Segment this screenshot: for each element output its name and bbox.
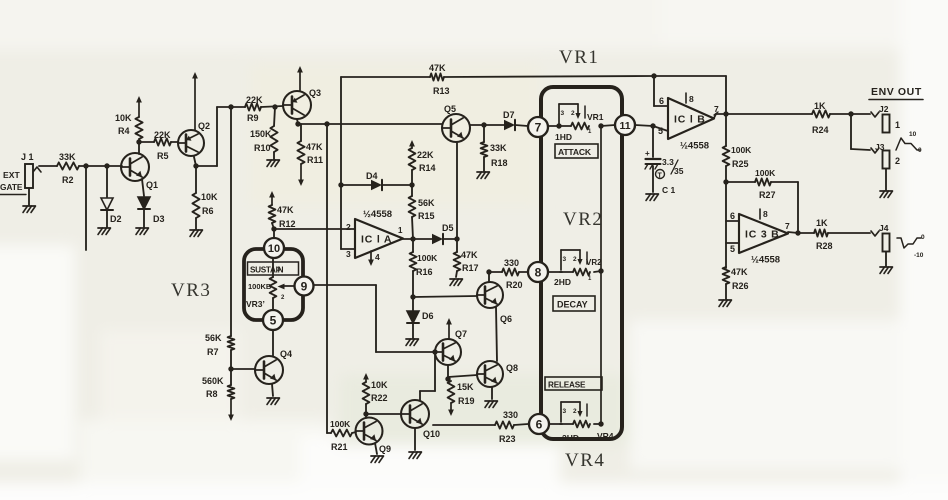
ground under R17 bbox=[450, 279, 463, 286]
diode D5 bbox=[432, 223, 454, 244]
svg-text:3: 3 bbox=[563, 256, 567, 263]
wire IC1A pin 2 bbox=[274, 228, 355, 230]
wire J4 to ground bbox=[885, 252, 887, 266]
svg-text:EXT: EXT bbox=[3, 170, 20, 180]
wire Q1 emitter to D3 bbox=[142, 179, 144, 196]
node junction Q2 collector bbox=[193, 163, 198, 168]
svg-text:10: 10 bbox=[268, 243, 280, 255]
svg-text:Q1: Q1 bbox=[146, 180, 158, 190]
wire to Q4 base bbox=[231, 368, 255, 370]
svg-text:1: 1 bbox=[895, 120, 900, 130]
wire to R9 bbox=[217, 106, 245, 108]
svg-text:R20: R20 bbox=[506, 280, 523, 290]
node junction D2 branch bbox=[104, 163, 109, 168]
node 7 bbox=[528, 117, 548, 137]
resistor R13 47K bbox=[429, 63, 450, 96]
ground under R6 bbox=[190, 230, 203, 237]
jack J1 (EXT GATE input) bbox=[21, 152, 41, 205]
transistor Q7 bbox=[435, 329, 467, 365]
potentiometer VR3 100KB bbox=[248, 258, 285, 310]
wire Q1 collector up bbox=[138, 142, 140, 154]
ATTACK label box bbox=[555, 144, 598, 158]
wire D2 branch down bbox=[106, 166, 108, 197]
svg-text:3: 3 bbox=[346, 249, 351, 259]
op-amp IC1B bbox=[668, 98, 714, 152]
resistor R17 47K bbox=[454, 239, 479, 277]
node junction D4 left bbox=[338, 182, 343, 187]
svg-text:7: 7 bbox=[714, 104, 719, 114]
wire D4 right bbox=[382, 184, 412, 186]
svg-text:R21: R21 bbox=[331, 442, 348, 452]
svg-text:8: 8 bbox=[763, 209, 768, 219]
potentiometer VR4 release bbox=[560, 402, 614, 441]
resistor R9 22K bbox=[245, 95, 263, 123]
IC1A pin4 arrow bbox=[370, 251, 372, 262]
wire node7 to VR1 bbox=[548, 125, 559, 127]
svg-text:5: 5 bbox=[270, 313, 277, 327]
svg-text:2: 2 bbox=[573, 408, 577, 415]
DECAY label box bbox=[553, 296, 595, 311]
svg-text:R2: R2 bbox=[62, 175, 74, 185]
svg-text:22K: 22K bbox=[154, 130, 171, 140]
wire pins bus IC3B bbox=[725, 182, 727, 268]
wire R5 to Q2 base bbox=[171, 141, 178, 143]
node junction Q6 collector bbox=[486, 269, 491, 274]
svg-text:D2: D2 bbox=[110, 214, 122, 224]
wire Q3 to Q5 base bbox=[298, 123, 442, 125]
IC1B pin 7 label bbox=[714, 104, 719, 115]
feedback riser x341 bbox=[340, 77, 342, 249]
transistor Q3 bbox=[283, 88, 321, 119]
node junction IC3B output bbox=[795, 230, 800, 235]
svg-text:½4558: ½4558 bbox=[363, 209, 392, 220]
wire Q10 emitter down bbox=[414, 428, 416, 450]
transistor Q2 bbox=[178, 121, 210, 156]
svg-text:5: 5 bbox=[658, 126, 663, 136]
power arrow above Q2 bbox=[194, 76, 196, 130]
svg-text:VR2: VR2 bbox=[586, 258, 602, 267]
wire R20 left bbox=[489, 271, 502, 273]
svg-text:R22: R22 bbox=[371, 393, 388, 403]
resistor R28 1K bbox=[814, 218, 833, 251]
wire node10 stub bbox=[273, 229, 275, 239]
wire Q5 to D7 node bbox=[470, 124, 484, 126]
ground under D6 bbox=[406, 339, 419, 346]
svg-text:R8: R8 bbox=[206, 389, 218, 399]
node junction R10 top bbox=[272, 104, 277, 109]
node junction R12 / pin2 bbox=[271, 226, 276, 231]
jack J4 bbox=[871, 223, 890, 252]
resistor R23 330 bbox=[495, 410, 518, 444]
resistor R19 15K bbox=[448, 381, 475, 406]
wire IC3B pin6 bbox=[726, 220, 739, 222]
transistor Q5 bbox=[442, 104, 470, 142]
node junction VR4 out bbox=[598, 421, 603, 426]
svg-text:R27: R27 bbox=[759, 190, 776, 200]
resistor R7 56K bbox=[205, 333, 234, 357]
power arrow above Q3 bbox=[299, 70, 301, 91]
wire node9 right bbox=[314, 284, 377, 286]
ground under R18 bbox=[477, 172, 490, 179]
svg-text:330: 330 bbox=[503, 410, 518, 420]
node junction feedback top bbox=[651, 73, 656, 78]
wire to D7 bbox=[484, 124, 504, 126]
svg-text:10K: 10K bbox=[371, 380, 388, 390]
resistor R10 150K bbox=[250, 107, 278, 159]
svg-text:0: 0 bbox=[918, 147, 922, 154]
svg-text:0: 0 bbox=[921, 234, 925, 241]
svg-text:10: 10 bbox=[909, 131, 917, 138]
wire J1 to R2 bbox=[39, 165, 57, 167]
svg-text:33K: 33K bbox=[59, 152, 76, 162]
resistor R22 10K bbox=[363, 380, 388, 414]
resistor R14 22K bbox=[409, 148, 436, 185]
node 11 bbox=[615, 115, 635, 135]
node junction Q1 collector bbox=[136, 139, 141, 144]
svg-text:22K: 22K bbox=[417, 150, 434, 160]
svg-text:R24: R24 bbox=[812, 125, 829, 135]
wire gate drop to R21 bbox=[326, 124, 328, 433]
resistor R15 56K bbox=[409, 185, 435, 239]
node 10 bbox=[264, 238, 284, 258]
svg-text:3.3: 3.3 bbox=[662, 157, 674, 167]
resistor R27 100K bbox=[755, 168, 776, 200]
svg-text:R23: R23 bbox=[499, 434, 516, 444]
wire D5 to R17 node bbox=[443, 238, 457, 240]
ground under C1 bbox=[646, 194, 659, 201]
resistor R24 1K bbox=[812, 101, 830, 135]
node junction VR2 out bbox=[598, 268, 603, 273]
svg-text:R10: R10 bbox=[254, 143, 271, 153]
node junction D4/R14/R15 bbox=[409, 182, 414, 187]
VR3 wiper arrow from node 9 bbox=[278, 284, 295, 290]
svg-text:47K: 47K bbox=[306, 142, 323, 152]
svg-text:1: 1 bbox=[398, 226, 403, 235]
power arrow above Q7 bbox=[448, 322, 450, 339]
svg-text:8: 8 bbox=[535, 265, 542, 279]
resistor R2 33K bbox=[57, 152, 79, 185]
svg-text:R9: R9 bbox=[247, 113, 259, 123]
transistor Q1 bbox=[121, 153, 158, 190]
svg-text:VR2: VR2 bbox=[563, 209, 603, 230]
wire R22 node to Q10 base bbox=[366, 413, 401, 415]
svg-text:56K: 56K bbox=[205, 333, 222, 343]
resistor R6 10K bbox=[192, 166, 218, 229]
op-amp IC3B bbox=[739, 214, 788, 266]
resistor R18 33K bbox=[481, 125, 508, 171]
transistor Q10 bbox=[401, 400, 440, 439]
svg-text:2: 2 bbox=[573, 256, 577, 263]
wire feedback top to output bbox=[654, 75, 726, 77]
ground under Q9 bbox=[371, 456, 384, 463]
power arrow above R4 bbox=[138, 100, 140, 117]
wire D3 to ground bbox=[143, 210, 145, 227]
svg-text:2: 2 bbox=[895, 156, 900, 166]
svg-text:D5: D5 bbox=[442, 223, 454, 233]
node junction Q10 collector bbox=[432, 349, 437, 354]
wire to Q6 base bbox=[413, 296, 477, 297]
svg-text:J 1: J 1 bbox=[21, 152, 34, 162]
diode D4 bbox=[366, 171, 382, 190]
svg-text:T: T bbox=[658, 173, 663, 180]
EXT GATE label bbox=[0, 170, 26, 195]
wire Q3 collector down bbox=[297, 119, 298, 124]
wire R23 to node 6 bbox=[514, 424, 528, 425]
wire to Q7 base bbox=[376, 351, 435, 353]
ground under R26 bbox=[719, 300, 732, 307]
node 6 bbox=[529, 414, 549, 434]
svg-text:D6: D6 bbox=[422, 311, 434, 321]
node 5 bbox=[263, 310, 283, 330]
svg-text:VR3: VR3 bbox=[171, 280, 211, 301]
power arrow above R14 bbox=[411, 144, 413, 148]
svg-text:R11: R11 bbox=[307, 155, 323, 165]
svg-text:330: 330 bbox=[504, 258, 519, 268]
svg-text:2HD: 2HD bbox=[554, 277, 571, 287]
node junction VR1 terminal 3 bbox=[556, 123, 561, 128]
wire D4 left bbox=[341, 184, 371, 186]
wire Q9 collector up bbox=[365, 414, 367, 418]
ground under Q10 bbox=[409, 452, 422, 459]
svg-text:Q9: Q9 bbox=[379, 444, 391, 454]
IC3B pin 8 tick bbox=[760, 209, 768, 219]
svg-text:J2: J2 bbox=[879, 104, 889, 114]
svg-text:DECAY: DECAY bbox=[557, 300, 588, 310]
resistor R5 22K bbox=[154, 130, 171, 161]
wire node11 right bbox=[635, 125, 653, 126]
svg-text:ENV OUT: ENV OUT bbox=[871, 86, 922, 98]
svg-text:R28: R28 bbox=[816, 241, 833, 251]
potentiometer VR2 decay bbox=[560, 250, 602, 282]
svg-text:IC 3 B: IC 3 B bbox=[745, 229, 780, 241]
svg-text:Q7: Q7 bbox=[455, 329, 467, 339]
wire R12 to pin2 node bbox=[272, 223, 274, 229]
resistor R21 100K bbox=[330, 419, 352, 452]
node junction R25/R27 bbox=[723, 179, 728, 184]
svg-text:9: 9 bbox=[301, 279, 308, 293]
svg-text:150K: 150K bbox=[250, 129, 272, 139]
svg-text:3: 3 bbox=[563, 408, 567, 415]
transistor Q6 bbox=[477, 282, 512, 324]
SUSTAIN label box bbox=[248, 262, 299, 275]
transistor Q9 bbox=[356, 418, 392, 455]
svg-text:R7: R7 bbox=[207, 347, 219, 357]
svg-text:IC l B: IC l B bbox=[674, 114, 706, 126]
transistor Q4 bbox=[255, 349, 292, 384]
power arrow above R22 bbox=[365, 377, 367, 382]
wire R27 left bbox=[726, 181, 755, 183]
wire IC1B output bbox=[714, 114, 716, 118]
wire R13 to IC1B bbox=[444, 76, 654, 77]
svg-text:Q4: Q4 bbox=[280, 349, 292, 359]
wire R9 to Q3 base bbox=[261, 106, 283, 107]
ground under Q4 bbox=[267, 398, 280, 405]
wire Q2 collector down bbox=[194, 157, 196, 166]
svg-text:R16: R16 bbox=[416, 267, 433, 277]
wire J3 drop bbox=[850, 114, 852, 149]
svg-text:-10: -10 bbox=[914, 252, 924, 259]
svg-text:RELEASE: RELEASE bbox=[548, 381, 586, 390]
svg-text:R4: R4 bbox=[118, 126, 130, 136]
svg-text:10K: 10K bbox=[115, 113, 132, 123]
svg-text:ATTACK: ATTACK bbox=[558, 147, 592, 157]
svg-text:D3: D3 bbox=[153, 214, 165, 224]
feedback wire R13 top bbox=[341, 76, 430, 78]
svg-text:47K: 47K bbox=[461, 250, 478, 260]
wire node6 to VR4 bbox=[549, 423, 562, 425]
svg-text:7: 7 bbox=[535, 120, 542, 134]
svg-text:Q8: Q8 bbox=[506, 363, 518, 373]
node junction pin5/C1 bbox=[650, 123, 655, 128]
resistor R4 10K bbox=[115, 113, 143, 139]
svg-text:½4558: ½4558 bbox=[751, 255, 780, 266]
wire node9 drop bbox=[375, 285, 377, 352]
wire Q7 emitter down bbox=[447, 365, 449, 379]
wire Q2 junction right bbox=[196, 165, 217, 167]
svg-text:1K: 1K bbox=[814, 101, 826, 111]
svg-text:R6: R6 bbox=[202, 206, 214, 216]
svg-text:R18: R18 bbox=[491, 158, 508, 168]
wire J3 to ground bbox=[885, 169, 887, 190]
svg-text:2HD: 2HD bbox=[562, 433, 579, 443]
node junction D5/R17 bbox=[454, 236, 459, 241]
node junction Q4 base bbox=[228, 366, 233, 371]
wire IC1A pin3 bbox=[341, 248, 355, 250]
svg-text:15K: 15K bbox=[457, 382, 474, 392]
node junction VR1 wiper out bbox=[598, 123, 603, 128]
diode D6 bbox=[407, 297, 434, 338]
wire VR2 to bus bbox=[594, 271, 601, 272]
svg-text:1K: 1K bbox=[816, 218, 828, 228]
resistor R8 560K bbox=[202, 376, 234, 399]
IC1B pin 8 tick bbox=[686, 93, 694, 104]
jack J3 bbox=[871, 142, 900, 169]
wire R23 left bbox=[433, 424, 495, 426]
resistor R12 47K bbox=[269, 205, 296, 229]
svg-text:R25: R25 bbox=[732, 159, 749, 169]
RELEASE label box bbox=[545, 377, 602, 390]
negative rail arrow under R19 bbox=[450, 403, 452, 412]
ground under D2 bbox=[98, 228, 111, 235]
wire R27 feedback to output bbox=[771, 181, 798, 183]
wire IC3B output bbox=[788, 232, 798, 233]
wire Q4 emitter down bbox=[272, 384, 273, 396]
svg-text:VR1: VR1 bbox=[559, 47, 599, 68]
diode D2 bbox=[101, 198, 122, 224]
resistor R26 47K bbox=[723, 267, 749, 299]
envelope waveform positive bbox=[896, 131, 922, 154]
inner bus wire bbox=[600, 126, 602, 424]
svg-text:1HD: 1HD bbox=[555, 132, 572, 142]
diode D3 bbox=[138, 197, 165, 224]
wire Q9 emitter down bbox=[375, 443, 377, 454]
svg-text:IC l A: IC l A bbox=[361, 234, 392, 246]
jack J2 bbox=[871, 104, 900, 133]
node junction R22 bottom bbox=[363, 411, 368, 416]
node junction Q3 collector bbox=[295, 121, 300, 126]
svg-text:47K: 47K bbox=[731, 267, 748, 277]
svg-text:35: 35 bbox=[674, 166, 684, 176]
wire gate line down bbox=[85, 166, 87, 250]
svg-text:22K: 22K bbox=[246, 95, 263, 105]
svg-text:R12: R12 bbox=[279, 219, 296, 229]
ground under D3 bbox=[136, 228, 149, 235]
wire R20 to node 8 bbox=[519, 271, 528, 273]
node junction R7 bus top bbox=[228, 104, 233, 109]
svg-text:+: + bbox=[645, 149, 650, 158]
wire Q4 collector to node 5 bbox=[272, 330, 274, 356]
ground under J4 bbox=[880, 267, 893, 274]
svg-text:VR1: VR1 bbox=[587, 112, 604, 122]
svg-text:D4: D4 bbox=[366, 171, 378, 181]
svg-text:3: 3 bbox=[561, 110, 565, 117]
potentiometer VR1 attack bbox=[558, 104, 604, 135]
node junction IC1A output bbox=[410, 236, 415, 241]
svg-text:½4558: ½4558 bbox=[680, 141, 709, 152]
svg-text:GATE: GATE bbox=[0, 182, 23, 192]
svg-text:6: 6 bbox=[536, 417, 543, 431]
power arrow above R12 bbox=[271, 195, 273, 205]
svg-text:R17: R17 bbox=[462, 263, 479, 273]
wire up to gate bus bbox=[216, 107, 218, 166]
ground under R10 bbox=[267, 160, 280, 167]
wire R7 to base node bbox=[230, 350, 232, 385]
svg-text:47K: 47K bbox=[277, 205, 294, 215]
resistor R25 100K bbox=[723, 114, 753, 182]
wire VR4 to bus bbox=[594, 423, 601, 425]
resistor R20 330 bbox=[502, 258, 523, 290]
SUSTAIN pot box VR3 bbox=[244, 249, 303, 320]
svg-text:56K: 56K bbox=[418, 198, 435, 208]
divider bus R7/R8 bbox=[230, 107, 232, 336]
node junction at R2 output bbox=[83, 163, 88, 168]
svg-text:Q3: Q3 bbox=[309, 88, 321, 98]
svg-text:7: 7 bbox=[785, 221, 790, 231]
wire R28 to J4 bbox=[828, 232, 870, 234]
transistor Q8 bbox=[477, 361, 518, 387]
svg-text:Q10: Q10 bbox=[423, 429, 440, 439]
node junction IC1B output bbox=[723, 111, 728, 116]
svg-text:6: 6 bbox=[730, 211, 735, 221]
wire Q10 collector up bbox=[419, 391, 421, 400]
node 9 bbox=[295, 277, 314, 296]
resistor R11 47K bbox=[297, 124, 323, 165]
svg-text:100K: 100K bbox=[417, 253, 438, 263]
svg-text:R13: R13 bbox=[433, 86, 450, 96]
wire Q8 emitter down bbox=[491, 387, 493, 399]
wire IC1A output bbox=[403, 238, 432, 240]
diode D7 bbox=[503, 110, 515, 130]
svg-text:VR3’: VR3’ bbox=[246, 299, 265, 309]
resistor R16 100K bbox=[410, 239, 439, 297]
svg-text:100K: 100K bbox=[330, 419, 351, 429]
wire up to Q5 collector bbox=[456, 143, 458, 239]
svg-text:VR4: VR4 bbox=[597, 431, 614, 441]
svg-text:J4: J4 bbox=[879, 223, 889, 233]
node junction gate drop bbox=[324, 121, 329, 126]
svg-text:VR4: VR4 bbox=[565, 450, 605, 471]
svg-text:R26: R26 bbox=[732, 281, 749, 291]
svg-text:8: 8 bbox=[689, 94, 694, 104]
VR1/VR2/VR4 panel box bbox=[541, 87, 622, 439]
wire to R5 bbox=[139, 141, 154, 143]
svg-text:R19: R19 bbox=[458, 396, 475, 406]
svg-text:100KB: 100KB bbox=[248, 282, 272, 291]
svg-text:11: 11 bbox=[619, 120, 630, 132]
svg-text:C 1: C 1 bbox=[662, 185, 676, 195]
svg-text:D7: D7 bbox=[503, 110, 515, 120]
svg-text:4: 4 bbox=[375, 252, 380, 262]
